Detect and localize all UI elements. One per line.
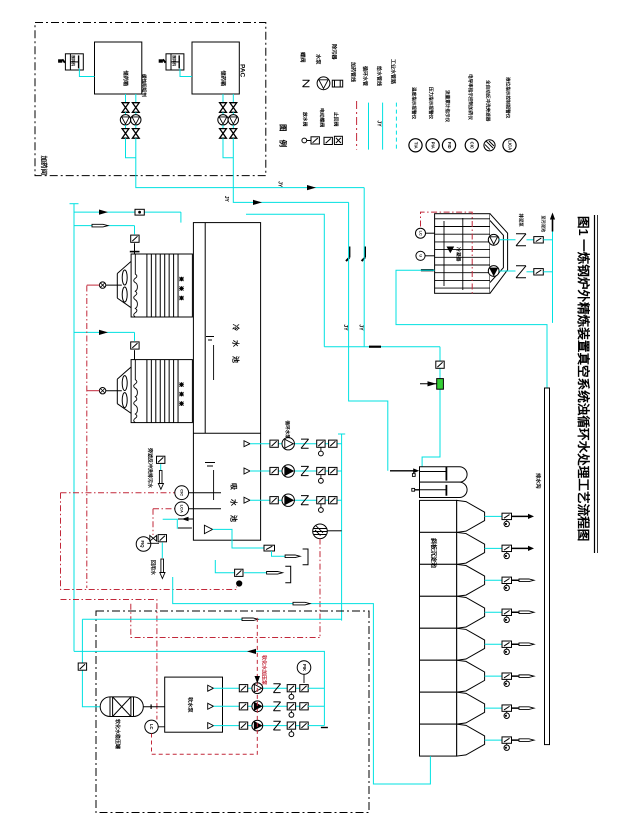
drain channel [545,388,550,745]
svg-text:回用水: 回用水 [150,560,157,576]
settler cell 1 [420,500,457,532]
tank outlet to pump house [143,706,164,708]
legend instrument TIA [409,139,422,152]
soft water feed line [82,619,100,706]
settler bottom drain (cyan) [342,604,431,784]
svg-text:搅拌机: 搅拌机 [71,55,76,66]
condenser pump 2 [488,266,499,277]
settler cell 6 drain valve [485,675,502,677]
sludge arrow [528,514,534,519]
svg-text:CIC: CIC [179,489,184,496]
svg-text:工业水管路: 工业水管路 [390,59,397,85]
circulating pump row 2 [244,468,250,474]
booster pump row 3 [208,723,214,729]
pump house box [165,677,223,732]
chemical tank box [192,42,239,94]
instrument PIK [297,661,311,675]
svg-text:液位指示控制报警仪: 液位指示控制报警仪 [505,77,512,119]
svg-text:FIQ: FIQ [140,541,145,549]
circulating pump row 3 [244,497,250,503]
svg-text:JY: JY [376,120,382,127]
svg-text:FID: FID [447,142,452,149]
tower 2 motor power (red) [87,390,100,392]
drain hollow arrow [519,739,534,742]
tower 2 fan motor [99,388,105,394]
cooling tower 1 fill hatch [147,254,178,317]
condenser inlet from basin / outlet to channel [396,270,547,388]
svg-text:冷凝器: 冷凝器 [455,247,462,262]
tower 2 fan stack [117,367,131,413]
reuse drain to east (cyan) [173,577,342,604]
motor dosing riser (red) [86,286,88,589]
drain hollow arrow 1 [285,555,300,558]
fan shaft [106,390,122,392]
pump 2 discharge valve [499,270,515,272]
svg-text:软水泵: 软水泵 [187,697,195,713]
agitator (mixer) [65,54,83,70]
dosing water drop pipes (cyan) [223,138,233,158]
svg-text:JY: JY [342,324,348,331]
settler cell 4 drain valve [485,611,502,613]
dosing room enclosure (dash-dot) [35,23,266,176]
dosing pump train column 2 [135,94,137,103]
side filter dosing drop (red) [319,539,321,638]
drain hollow arrow [519,675,534,678]
feed-water main JY1 from PAC room [136,138,364,187]
tower 1 fan stack [117,261,131,307]
stub into green valve [420,383,437,385]
settler cell 5 drain valve [485,643,502,645]
settler feed stub 2 [413,489,419,491]
condenser unit outline [435,214,490,294]
basin inner wall [204,223,206,434]
svg-text:TIA: TIA [413,142,418,149]
svg-text:加药间: 加药间 [40,155,49,176]
agitator (mixer) [166,54,184,70]
inlet tee 1 [445,467,447,481]
flow tick on header [369,346,381,348]
FIQ link line [147,542,159,544]
tower 1 motor power (red) [87,284,100,286]
svg-text:LC: LC [149,724,154,730]
soft water station enclosure (dash-dot) [96,611,369,813]
legend feed water line (cyan with tag) [382,103,384,150]
arrow on booster header [247,649,256,654]
instrument LC at tank [145,720,158,733]
title underline 1 [594,215,596,553]
svg-text:循环水管: 循环水管 [362,66,369,86]
drain funnel 2 [215,560,234,573]
chemical tank box [95,42,142,94]
arrow into booster pump suction [255,676,261,684]
condenser pump 1 [488,234,499,245]
hollow flow arrow [92,224,108,227]
instrument LC at condenser [416,228,426,238]
condenser dosing line (red) [421,212,473,296]
svg-text:压力指示报警仪: 压力指示报警仪 [428,87,435,120]
settler inlet channels [420,467,468,482]
filter to bus stub [327,530,341,532]
svg-text:水泵: 水泵 [315,54,323,65]
legend motor-valve symbol [324,137,332,144]
legend strainer symbol [332,80,342,87]
flow arrow on JY2 [253,200,262,205]
flow totalizer FIQ [136,537,151,552]
svg-text:软化水加压泵: 软化水加压泵 [261,655,268,686]
water level mark upper [206,336,214,338]
legend side-filter symbol (hatched circle) [484,140,495,151]
settler cell 2 [420,532,457,564]
drain hollow arrow [519,707,534,710]
svg-text:旁滤反冲洗排污水: 旁滤反冲洗排污水 [147,447,154,489]
tower 1 drift marks [179,277,184,301]
legend pump symbol [317,77,330,90]
side filter (hatched circle) [313,524,328,539]
tower 2 fan blades [122,376,127,391]
svg-text:LICA: LICA [507,140,512,150]
condenser discharge bus [552,232,554,323]
settler cell 7 [420,692,457,724]
svg-text:图 例: 图 例 [279,124,289,150]
feed-water main JY2 [233,138,348,202]
svg-text:CIC: CIC [470,142,475,149]
water level mark lower [205,462,215,464]
make-up line to cold basin [74,211,181,213]
station dosing loop (red) [152,617,258,755]
svg-text:PIK: PIK [302,664,307,671]
settler cell 7 drain valve [485,707,502,709]
bus end tee [338,433,345,435]
flow tick at condenser inlet [421,269,434,271]
svg-text:电导率指示控制加药仪: 电导率指示控制加药仪 [467,74,474,120]
svg-text:循环水泵: 循环水泵 [284,421,291,440]
circulating supply cross header [324,346,440,348]
svg-text:吸 水 池: 吸 水 池 [230,483,239,525]
pump discharge bus [341,434,343,621]
outlet flange tick [150,704,152,709]
svg-text:JY: JY [223,196,229,203]
legend industrial water line (cyan dashed) [395,103,397,150]
legend butterfly valve symbol [303,80,310,87]
svg-text:流量累计指示仪: 流量累计指示仪 [444,90,451,123]
reuse water pipe + arrow [161,543,163,558]
tank cross 2 [113,697,131,717]
dosing water drop pipes (cyan) [126,138,136,158]
FIQ valve box [158,535,166,542]
riser B (to settler feed) [349,202,388,470]
svg-text:加药管线: 加药管线 [350,61,357,82]
header end tee [70,203,79,205]
valve box on tower-2 riser [131,342,139,349]
tower 1 fan blades [122,270,127,285]
tank cross 1 [113,697,131,717]
tower 1 fan motor [99,282,105,288]
small drain elbow [163,519,178,529]
tower 2 drift marks [179,382,184,406]
flow arrow [99,330,108,335]
svg-text:PIA: PIA [430,142,435,149]
booster pump row 1 [208,685,214,691]
svg-text:储药箱: 储药箱 [122,71,130,87]
fan shaft [106,284,122,286]
basin division [193,432,260,434]
booster discharge header [74,651,324,725]
svg-text:温度指示报警仪: 温度指示报警仪 [411,87,418,120]
settler cell 5 [420,628,457,660]
pressure tank (capsule) [100,697,143,717]
settler cell 3 drain valve [485,579,502,581]
valve box above green valve [436,361,444,368]
lower dosing header (red) [131,604,321,638]
tower 2 spray pipe [134,360,138,423]
legend instrument LICA [503,139,516,152]
soft water header [82,618,341,620]
basin outlet pipe to condenser unit [246,214,324,347]
settler cell 1 drain valve [485,515,502,517]
pump 1 discharge valve [499,239,515,241]
arrow into green valve [428,381,437,386]
tower 1 spray pipe [134,254,138,317]
booster pump row 2 [208,703,214,709]
water meter on make-up line [135,209,144,215]
legend gauge-valve symbol [302,138,307,143]
settler cell 8 drain valve [485,739,502,741]
svg-text:蝶阀: 蝶阀 [299,52,307,62]
svg-text:止回阀: 止回阀 [333,112,340,127]
drain hollow arrow [519,611,534,614]
tube support 2 [462,218,464,290]
svg-text:JY: JY [276,181,282,188]
instrument LCA on basin [175,502,189,516]
bus end tick [321,727,328,729]
basin drain to sewer [204,525,212,533]
hollow arrow on drain header [293,602,310,605]
make-up water header (vertical, left) [73,204,75,652]
FIQ inlet bowtie valve [150,536,157,542]
dosing pump train column 2 [232,94,234,103]
instrument CIC on basin [175,486,189,500]
settler feed stub 1 [390,470,417,472]
svg-text:储药箱: 储药箱 [220,71,228,87]
sludge drain stub (up arrow) [552,215,554,232]
secondary dosing branch (red) [61,600,157,720]
drain hollow arrow [519,579,534,582]
svg-text:搅拌机: 搅拌机 [172,55,177,66]
svg-text:排泥泵: 排泥泵 [517,214,524,228]
dosing pump train column 1 [125,94,127,103]
settler cell 2 drain valve [485,547,502,549]
svg-text:至污泥池: 至污泥池 [540,216,547,234]
hot water riser to tower 1 [74,225,135,227]
tube support 1 [443,221,445,286]
settler cell 4 [420,596,457,628]
mixer feed pipe (cyan elbow) [180,69,192,77]
svg-text:软化水稳压罐: 软化水稳压罐 [114,719,121,749]
green special valve [437,379,444,390]
condenser tube bundle [435,218,490,220]
dosing pump train column 1 [222,94,224,103]
legend circulating water line (cyan) [368,103,370,150]
drain hollow arrow [519,643,534,646]
legend instrument CIC [465,139,478,152]
inlet tee 2 [445,485,447,496]
main basin (cold/suction well) [193,223,260,541]
gate valve marks on risers [346,247,349,262]
settler cell 3 [420,564,457,596]
hot water riser to tower 2 [74,331,135,333]
svg-text:图1 一炼钢炉外精炼装置真空系统浊循环水处理工艺流程图: 图1 一炼钢炉外精炼装置真空系统浊循环水处理工艺流程图 [576,216,591,541]
svg-text:冷 水 池: 冷 水 池 [232,324,241,366]
svg-text:给水管线: 给水管线 [376,66,383,86]
settler cell 8 [420,724,457,756]
backwash discharge valve [157,456,165,463]
dosing loop to level instruments (red) [61,492,175,494]
svg-text:排水沟: 排水沟 [535,473,543,489]
inlet pipe in channel 2 [420,489,447,491]
svg-text:JY: JY [357,324,363,331]
svg-text:电动蝶阀: 电动蝶阀 [319,108,326,127]
legend check-valve symbol [334,136,342,144]
svg-text:LC: LC [418,231,422,236]
legend instrument PIA [426,139,439,152]
feed valve box [78,663,86,670]
svg-text:缓蚀阻垢剂: 缓蚀阻垢剂 [141,74,148,97]
settler feed drop with green valve [422,347,440,468]
instrument U at condenser [416,251,425,260]
legend instrument FID [442,139,455,152]
hollow arrow on soft water header [242,618,258,621]
riser A (to settler via green valve) [363,188,365,347]
riser tee bar [130,251,140,253]
sludge arrow [528,546,534,551]
dosing point [237,581,242,586]
flow arrow on JY1 [307,185,316,190]
inlet pipe in channel 1 [420,471,447,473]
svg-text:放水阀: 放水阀 [302,111,309,127]
svg-text:斜板沉淀池: 斜板沉淀池 [430,537,438,568]
circulating pump row 1 [244,441,250,447]
cooling tower 1 fill box [131,254,192,317]
flow arrow [99,210,108,215]
svg-text:U: U [418,254,422,257]
valve box on tower-1 riser [131,235,139,242]
svg-text:除污器: 除污器 [331,44,339,60]
mixer feed pipe (cyan elbow) [79,69,94,77]
svg-text:LCA: LCA [179,505,184,513]
svg-text:全自动反冲洗旁滤器: 全自动反冲洗旁滤器 [485,79,492,122]
basin overflow stubs [178,518,193,520]
settler cell 6 [420,660,457,692]
cooling tower 2 fill hatch [147,360,178,423]
svg-text:PAC: PAC [239,64,246,78]
legend dosing line (red dash-dot) [356,101,358,150]
title underline 2 [597,215,599,553]
sludge cone mark [447,247,455,254]
cooling tower 2 fill box [131,360,192,423]
